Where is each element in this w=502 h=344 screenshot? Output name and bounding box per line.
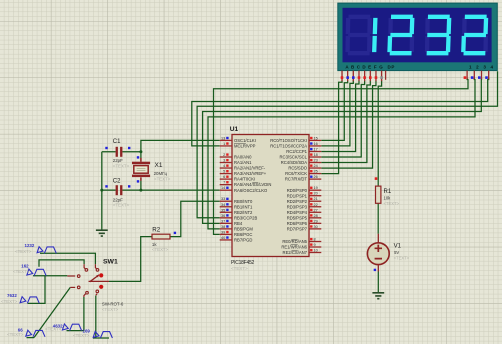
- svg-text:SW-ROT-6: SW-ROT-6: [102, 301, 124, 306]
- svg-text:<TEXT>: <TEXT>: [15, 249, 32, 254]
- svg-text:<TEXT>: <TEXT>: [394, 255, 410, 260]
- svg-text:RB1/INT1: RB1/INT1: [234, 204, 253, 209]
- svg-text:RD2/PSP2: RD2/PSP2: [287, 199, 308, 204]
- svg-text:6: 6: [223, 175, 225, 179]
- svg-text:RC5/SDO: RC5/SDO: [288, 166, 307, 171]
- svg-text:24: 24: [314, 164, 318, 168]
- svg-text:<TEXT>: <TEXT>: [231, 266, 248, 271]
- svg-text:16: 16: [314, 142, 318, 146]
- svg-text:RA1/AN1: RA1/AN1: [234, 160, 252, 165]
- svg-text:RB6/PGC: RB6/PGC: [234, 232, 252, 237]
- svg-text:<TEXT>: <TEXT>: [113, 203, 130, 208]
- svg-text:1k: 1k: [152, 242, 157, 247]
- svg-text:SW1: SW1: [103, 259, 118, 266]
- svg-text:RC7/RX/DT: RC7/RX/DT: [285, 177, 308, 182]
- svg-text:1232: 1232: [25, 243, 35, 248]
- svg-text:<TEXT>: <TEXT>: [152, 247, 169, 252]
- svg-text:U1: U1: [230, 126, 239, 133]
- svg-text:RC4/SDI/SDA: RC4/SDI/SDA: [281, 160, 308, 165]
- svg-text:20: 20: [314, 192, 318, 196]
- svg-text:C1: C1: [113, 139, 121, 145]
- svg-text:RA0/AN0: RA0/AN0: [234, 155, 252, 160]
- svg-text:10: 10: [314, 249, 318, 253]
- svg-text:RB4: RB4: [234, 221, 243, 226]
- svg-text:RD0/PSP0: RD0/PSP0: [287, 188, 308, 193]
- svg-text:21: 21: [314, 197, 318, 201]
- svg-text:35: 35: [221, 208, 225, 212]
- svg-text:9: 9: [314, 243, 316, 247]
- svg-text:RC2/CCP1: RC2/CCP1: [286, 149, 307, 154]
- svg-text:X1: X1: [155, 162, 163, 169]
- svg-text:23: 23: [314, 159, 318, 163]
- svg-text:29: 29: [314, 219, 318, 223]
- svg-text:8: 8: [314, 238, 316, 242]
- svg-text:18: 18: [314, 153, 318, 157]
- svg-text:RB3/CCP2B: RB3/CCP2B: [234, 215, 257, 220]
- svg-text:RB0/INT0: RB0/INT0: [234, 199, 253, 204]
- svg-text:7: 7: [223, 181, 225, 185]
- svg-text:RB7/PGD: RB7/PGD: [234, 238, 252, 243]
- svg-text:33: 33: [221, 197, 225, 201]
- svg-text:RE1/WR/AN6: RE1/WR/AN6: [281, 245, 307, 250]
- svg-text:<TEXT>: <TEXT>: [13, 269, 30, 274]
- svg-text:34: 34: [221, 203, 225, 207]
- svg-text:22: 22: [314, 203, 318, 207]
- svg-text:14: 14: [221, 186, 225, 190]
- svg-text:R2: R2: [152, 226, 160, 233]
- svg-text:2: 2: [223, 153, 225, 157]
- svg-text:26: 26: [314, 175, 318, 179]
- svg-text:RA3/AN3/VREF+: RA3/AN3/VREF+: [234, 171, 267, 176]
- svg-text:RD7/PSP7: RD7/PSP7: [287, 226, 308, 231]
- svg-text:RD5/PSP5: RD5/PSP5: [287, 215, 308, 220]
- svg-text:DP: DP: [388, 65, 395, 70]
- svg-text:RB5/PGM: RB5/PGM: [234, 226, 253, 231]
- svg-text:<TEXT>: <TEXT>: [1, 299, 18, 304]
- svg-text:E: E: [368, 65, 371, 70]
- svg-text:RA2/AN2/VREF-: RA2/AN2/VREF-: [234, 166, 266, 171]
- svg-text:RA5/AN4/SS/LVDIN: RA5/AN4/SS/LVDIN: [234, 182, 271, 187]
- svg-text:<TEXT>: <TEXT>: [154, 177, 171, 182]
- svg-text:<TEXT>: <TEXT>: [113, 164, 130, 169]
- svg-text:5V: 5V: [394, 250, 399, 255]
- svg-text:RC1/T1OSI/CCP2A: RC1/T1OSI/CCP2A: [270, 144, 307, 149]
- svg-text:V1: V1: [394, 243, 402, 249]
- svg-text:RB2/INT2: RB2/INT2: [234, 210, 253, 215]
- svg-text:22pF: 22pF: [113, 197, 123, 202]
- svg-text:OSC1/CLKI: OSC1/CLKI: [234, 138, 256, 143]
- svg-text:RA6/OSC2/CLKO: RA6/OSC2/CLKO: [234, 188, 268, 193]
- svg-text:19: 19: [314, 186, 318, 190]
- svg-text:RD6/PSP6: RD6/PSP6: [287, 221, 308, 226]
- svg-text:RC6/TX/CK: RC6/TX/CK: [285, 171, 307, 176]
- svg-text:162: 162: [21, 263, 29, 268]
- svg-text:3: 3: [223, 159, 225, 163]
- svg-text:30: 30: [314, 225, 318, 229]
- svg-text:<TEXT>: <TEXT>: [73, 333, 90, 338]
- svg-text:37: 37: [221, 219, 225, 223]
- svg-text:RD4/PSP4: RD4/PSP4: [287, 210, 308, 215]
- svg-text:RC3/SCK/SCL: RC3/SCK/SCL: [280, 155, 308, 160]
- svg-text:38: 38: [221, 225, 225, 229]
- svg-text:R1: R1: [384, 189, 392, 195]
- svg-text:RE0/RD/AN5: RE0/RD/AN5: [282, 239, 307, 244]
- svg-text:15: 15: [314, 136, 318, 140]
- svg-text:22pF: 22pF: [113, 158, 123, 163]
- svg-text:27: 27: [314, 208, 318, 212]
- svg-text:20МГц: 20МГц: [154, 171, 168, 176]
- svg-text:4: 4: [223, 164, 225, 168]
- svg-text:17: 17: [314, 147, 318, 151]
- svg-text:<TEXT>: <TEXT>: [7, 332, 24, 337]
- svg-text:RE2/CS/AN7: RE2/CS/AN7: [283, 250, 308, 255]
- svg-text:40: 40: [221, 236, 225, 240]
- svg-text:F: F: [374, 65, 377, 70]
- svg-text:5: 5: [223, 170, 225, 174]
- svg-text:<TEXT>: <TEXT>: [384, 201, 400, 206]
- svg-text:RD3/PSP3: RD3/PSP3: [287, 204, 308, 209]
- svg-text:13: 13: [221, 136, 225, 140]
- svg-text:C2: C2: [113, 179, 121, 185]
- svg-text:39: 39: [221, 230, 225, 234]
- svg-text:RA4/T0CKI: RA4/T0CKI: [234, 177, 255, 182]
- svg-text:<TEXT>: <TEXT>: [102, 307, 119, 312]
- svg-text:RD1/PSP1: RD1/PSP1: [287, 193, 308, 198]
- svg-text:<TEXT>: <TEXT>: [45, 327, 62, 332]
- svg-text:25: 25: [314, 170, 318, 174]
- svg-text:28: 28: [314, 214, 318, 218]
- svg-text:7632: 7632: [7, 293, 17, 298]
- svg-text:RC0/T1OSO/T1CKI: RC0/T1OSO/T1CKI: [270, 138, 307, 143]
- svg-text:1: 1: [223, 142, 225, 146]
- svg-text:G: G: [379, 65, 383, 70]
- svg-text:MCLR/VPP: MCLR/VPP: [234, 144, 256, 149]
- svg-text:36: 36: [221, 214, 225, 218]
